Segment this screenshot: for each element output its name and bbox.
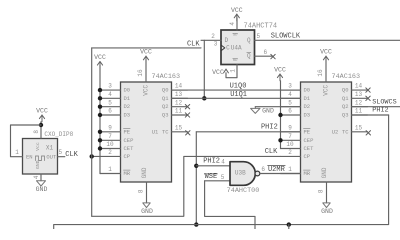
svg-text:Q: Q <box>247 53 251 60</box>
svg-text:3: 3 <box>288 83 292 90</box>
svg-text:2: 2 <box>288 149 292 156</box>
svg-text:12: 12 <box>355 99 363 106</box>
svg-text:VCC: VCC <box>143 85 150 96</box>
svg-text:VCC: VCC <box>36 108 48 115</box>
svg-text:CEP: CEP <box>304 137 314 144</box>
svg-text:74AC163: 74AC163 <box>332 73 361 81</box>
svg-text:D2: D2 <box>304 103 311 110</box>
svg-text:Q0: Q0 <box>162 87 169 94</box>
svg-text:5: 5 <box>288 99 292 106</box>
svg-text:VCC: VCC <box>212 69 224 76</box>
svg-text:GND: GND <box>141 167 148 178</box>
svg-text:16: 16 <box>137 69 144 77</box>
svg-text:PHI2: PHI2 <box>203 158 220 166</box>
svg-text:Q: Q <box>247 37 251 44</box>
svg-text:D3: D3 <box>304 112 311 119</box>
svg-text:3: 3 <box>108 83 112 90</box>
svg-text:VCC: VCC <box>320 49 332 56</box>
svg-text:74AHCT00: 74AHCT00 <box>227 187 260 195</box>
svg-text:GND: GND <box>141 208 153 215</box>
svg-text:PE: PE <box>124 128 131 135</box>
svg-text:1: 1 <box>15 149 19 156</box>
svg-text:2: 2 <box>211 33 215 40</box>
svg-text:Vcc: Vcc <box>35 142 41 151</box>
svg-text:OUT: OUT <box>46 154 57 161</box>
svg-text:6: 6 <box>288 108 292 115</box>
svg-text:VCC: VCC <box>94 54 106 61</box>
svg-text:CLK: CLK <box>265 148 278 156</box>
svg-text:9: 9 <box>108 124 112 131</box>
svg-text:11: 11 <box>355 108 363 115</box>
svg-text:4: 4 <box>33 175 40 179</box>
svg-text:CXO_DIP8: CXO_DIP8 <box>44 131 73 138</box>
svg-text:Q0: Q0 <box>342 87 349 94</box>
svg-text:D0: D0 <box>304 87 311 94</box>
svg-text:CEP: CEP <box>124 137 134 144</box>
svg-text:GND: GND <box>321 167 328 178</box>
svg-text:VCC: VCC <box>231 7 243 14</box>
svg-text:4: 4 <box>229 22 236 26</box>
svg-text:1: 1 <box>108 166 112 173</box>
svg-text:U1Q1: U1Q1 <box>230 91 247 99</box>
svg-text:SLOWCS: SLOWCS <box>372 98 396 106</box>
svg-text:D: D <box>224 37 228 44</box>
svg-text:11: 11 <box>175 108 183 115</box>
svg-text:U2MR: U2MR <box>268 166 286 174</box>
svg-text:U3B: U3B <box>235 169 246 176</box>
svg-text:GND: GND <box>35 160 41 169</box>
svg-text:CLK: CLK <box>65 151 78 159</box>
svg-text:U1: U1 <box>152 128 159 135</box>
svg-text:Q2: Q2 <box>162 103 169 110</box>
svg-text:8: 8 <box>138 189 145 193</box>
svg-text:5: 5 <box>221 174 225 181</box>
svg-text:EN: EN <box>26 154 33 161</box>
svg-text:9: 9 <box>288 124 292 131</box>
svg-text:TC: TC <box>342 128 349 135</box>
svg-text:VCC: VCC <box>140 49 152 56</box>
svg-text:CP: CP <box>304 153 311 160</box>
svg-text:16: 16 <box>317 69 324 77</box>
svg-text:PE: PE <box>304 128 311 135</box>
svg-text:GND: GND <box>36 186 48 193</box>
svg-text:C: C <box>226 44 230 51</box>
svg-text:D1: D1 <box>304 95 311 102</box>
svg-text:SD: SD <box>233 34 238 38</box>
svg-text:PHI2: PHI2 <box>261 124 278 132</box>
svg-text:13: 13 <box>355 91 363 98</box>
svg-text:74AC163: 74AC163 <box>152 73 181 81</box>
svg-text:14: 14 <box>355 83 363 90</box>
svg-text:MR: MR <box>124 170 131 177</box>
svg-text:12: 12 <box>175 99 183 106</box>
svg-text:CP: CP <box>124 153 131 160</box>
svg-text:Q3: Q3 <box>342 112 349 119</box>
svg-text:CLK: CLK <box>187 40 200 48</box>
svg-text:1: 1 <box>230 69 237 73</box>
svg-text:MR: MR <box>304 170 311 177</box>
svg-text:U4A: U4A <box>231 45 242 52</box>
svg-text:6: 6 <box>261 166 265 173</box>
svg-text:D1: D1 <box>124 95 131 102</box>
svg-text:D2: D2 <box>124 103 131 110</box>
svg-text:7: 7 <box>288 133 292 140</box>
svg-text:CET: CET <box>124 145 135 152</box>
svg-text:RD: RD <box>233 59 238 63</box>
svg-text:GND: GND <box>262 107 274 114</box>
svg-text:TC: TC <box>162 128 169 135</box>
svg-text:6: 6 <box>263 49 267 56</box>
svg-text:CET: CET <box>304 145 315 152</box>
svg-text:7: 7 <box>108 133 112 140</box>
svg-text:D0: D0 <box>124 87 131 94</box>
svg-text:GND: GND <box>321 208 333 215</box>
svg-text:2: 2 <box>108 149 112 156</box>
svg-text:3: 3 <box>214 41 218 48</box>
svg-text:4: 4 <box>288 91 292 98</box>
svg-text:Q1: Q1 <box>342 95 349 102</box>
svg-text:D3: D3 <box>124 112 131 119</box>
svg-text:5: 5 <box>108 99 112 106</box>
svg-text:PHI2: PHI2 <box>372 107 388 115</box>
svg-text:Q1: Q1 <box>162 95 169 102</box>
svg-text:5: 5 <box>58 149 62 156</box>
svg-text:U2: U2 <box>332 128 339 135</box>
svg-text:X1: X1 <box>46 145 54 152</box>
svg-text:4: 4 <box>221 158 225 165</box>
svg-text:Q3: Q3 <box>162 112 169 119</box>
svg-text:VCC: VCC <box>274 67 286 74</box>
svg-text:VCC: VCC <box>323 85 330 96</box>
svg-text:74AHCT74: 74AHCT74 <box>244 22 278 30</box>
svg-text:10: 10 <box>106 141 114 148</box>
svg-text:Q2: Q2 <box>342 103 349 110</box>
svg-text:SLOWCLK: SLOWCLK <box>271 33 301 41</box>
svg-text:5: 5 <box>256 33 260 40</box>
svg-text:WSE: WSE <box>205 173 218 181</box>
svg-text:8: 8 <box>33 130 40 134</box>
svg-text:8: 8 <box>318 189 325 193</box>
svg-text:15: 15 <box>355 124 363 131</box>
svg-text:14: 14 <box>175 83 183 90</box>
svg-text:6: 6 <box>108 108 112 115</box>
svg-text:13: 13 <box>175 91 183 98</box>
svg-text:U1Q0: U1Q0 <box>230 82 247 90</box>
svg-text:1: 1 <box>288 166 292 173</box>
svg-text:10: 10 <box>286 141 294 148</box>
svg-text:15: 15 <box>175 124 183 131</box>
svg-text:4: 4 <box>108 91 112 98</box>
